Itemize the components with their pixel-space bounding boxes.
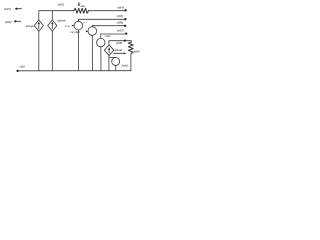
source I1 (circle) bbox=[74, 19, 83, 71]
svg-text:-2v(b): -2v(b) bbox=[120, 63, 127, 67]
node T1 input terminal bbox=[15, 8, 21, 10]
svg-text:v(b): v(b) bbox=[20, 65, 25, 69]
bottom rail bbox=[18, 70, 131, 72]
svg-text:v(66): v(66) bbox=[117, 21, 124, 25]
svg-text:v(61): v(61) bbox=[58, 3, 65, 7]
svg-text:v(67): v(67) bbox=[117, 28, 124, 32]
body transconductance source G3 (diamond) bbox=[104, 45, 113, 56]
I1 left arrow bbox=[72, 25, 74, 27]
wire B to v(66) bbox=[92, 25, 126, 27]
svg-text:i(66): i(66) bbox=[5, 20, 12, 24]
I2 left arrow bbox=[86, 30, 88, 32]
resistor Rout zigzag bbox=[74, 8, 89, 13]
wire top rail right of Rout bbox=[89, 10, 126, 12]
svg-text:v(65): v(65) bbox=[117, 14, 124, 18]
svg-text:S865: S865 bbox=[134, 49, 141, 53]
resistor R2 bottom lead bbox=[130, 54, 132, 70]
wire C to v(67) bbox=[101, 33, 126, 35]
wire G3 bottom column bbox=[108, 56, 110, 71]
wire G2 bottom column bbox=[51, 31, 53, 71]
node v(b) terminal dot bbox=[16, 70, 18, 72]
svg-text:gdsvds: gdsvds bbox=[57, 19, 67, 23]
wire jog to source I4 bbox=[109, 56, 116, 58]
svg-text:cw=dp0: cw=dp0 bbox=[70, 30, 80, 34]
source I4 (circle) bbox=[112, 58, 120, 71]
node v(66) terminal dot bbox=[124, 25, 126, 27]
node v(64) terminal dot bbox=[124, 9, 126, 11]
svg-text:=Av0: =Av0 bbox=[104, 34, 111, 38]
transconductance source G1 (diamond) bbox=[34, 20, 43, 31]
G3 current arrow bbox=[114, 52, 127, 54]
node v(65) terminal dot bbox=[124, 18, 126, 20]
node T2 input terminal bbox=[14, 20, 21, 22]
svg-text:gmvgs: gmvgs bbox=[25, 24, 35, 28]
svg-text:v(64): v(64) bbox=[117, 6, 124, 10]
transconductance source G2 (diamond) bbox=[48, 11, 57, 32]
wire G1 bottom column bbox=[38, 31, 40, 71]
plus mark near I1 bbox=[84, 22, 85, 23]
svg-text:i(65): i(65) bbox=[4, 7, 11, 11]
svg-text:Rout: Rout bbox=[77, 3, 85, 8]
node v(67) terminal dot bbox=[125, 32, 127, 34]
svg-text:c=o: c=o bbox=[65, 24, 70, 28]
resistor R2 vertical zigzag bbox=[128, 42, 133, 54]
svg-text:v(68): v(68) bbox=[116, 41, 123, 45]
wire D from diamond G3 to resistor bbox=[109, 41, 131, 45]
wire top rail bbox=[39, 11, 74, 20]
source I3 (circle) bbox=[97, 34, 105, 71]
node v(68) junction dot bbox=[124, 40, 126, 42]
svg-text:gmmb: gmmb bbox=[114, 48, 123, 52]
wire A to v(65) bbox=[78, 18, 126, 20]
source I2 (circle) bbox=[88, 26, 97, 71]
